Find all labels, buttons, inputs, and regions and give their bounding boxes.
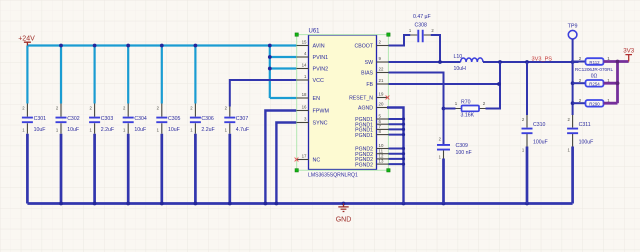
op-amp U61 body (308, 29, 377, 179)
svg-text:16: 16 (302, 105, 307, 110)
wire C311 to ground (571, 147, 574, 204)
capacitor C302 (56, 104, 80, 134)
svg-text:L10: L10 (454, 54, 463, 60)
wire VCC to C307 (230, 80, 297, 107)
svg-text:EN: EN (313, 96, 321, 102)
svg-text:BIAS: BIAS (361, 71, 373, 77)
svg-text:AGND: AGND (358, 106, 373, 112)
wire 3V3 purple net (604, 60, 629, 63)
svg-text:LMS3635SQRNLRQ1: LMS3635SQRNLRQ1 (308, 173, 358, 179)
U61 left pins (297, 46, 309, 160)
capacitor C301 (22, 104, 46, 134)
wire VIN drops to input caps (27, 46, 195, 104)
svg-text:RESET_N: RESET_N (349, 96, 373, 102)
capacitor C304 (123, 104, 147, 134)
svg-text:C306: C306 (201, 116, 214, 122)
wire FB (389, 83, 500, 85)
power port +24V (18, 35, 35, 45)
svg-text:U61: U61 (309, 29, 321, 35)
node junctions on 3V3_PS (438, 60, 574, 64)
svg-text:RC1206JR-070RL: RC1206JR-070RL (575, 67, 614, 72)
node junctions on +24V rail (59, 44, 272, 71)
wire L10 to 3V3_PS node (483, 61, 579, 63)
wire CBOOT to C308 (389, 35, 411, 46)
svg-text:10uF: 10uF (67, 127, 79, 133)
svg-text:C305: C305 (168, 116, 181, 122)
svg-text:C309: C309 (456, 143, 469, 149)
svg-text:PVIN2: PVIN2 (313, 67, 329, 73)
svg-text:TP9: TP9 (568, 24, 578, 30)
svg-text:FPWM: FPWM (313, 109, 330, 115)
svg-text:14: 14 (302, 63, 307, 68)
svg-text:0Ω: 0Ω (591, 73, 598, 79)
wire PGND2 pins to ground bus (389, 149, 404, 165)
selection box of U61 (295, 33, 390, 172)
svg-text:C311: C311 (579, 122, 591, 128)
svg-text:C302: C302 (67, 116, 80, 122)
wire C310 to 3V3_PS (526, 62, 528, 115)
capacitor C306 (190, 104, 215, 134)
wire C308 to SW node (431, 35, 440, 62)
svg-text:18: 18 (302, 92, 307, 97)
wire 3V3_PS to R70 (486, 62, 501, 109)
svg-text:GND: GND (336, 217, 352, 224)
resistor R290 (573, 98, 611, 107)
svg-text:100 nF: 100 nF (456, 150, 472, 156)
svg-text:2.2uF: 2.2uF (201, 127, 214, 133)
inductor L10 (454, 54, 484, 72)
svg-text:C307: C307 (236, 116, 249, 122)
svg-text:PGND2: PGND2 (355, 162, 373, 168)
node junctions on ground bus (59, 202, 529, 206)
svg-text:4.7uF: 4.7uF (236, 127, 249, 133)
svg-text:3V3_PS: 3V3_PS (532, 56, 553, 62)
capacitor C311 (567, 115, 593, 153)
resistor R112 (573, 56, 614, 79)
wire FPWM to ground (265, 111, 296, 204)
svg-text:C308: C308 (415, 23, 428, 29)
svg-text:C301: C301 (34, 116, 47, 122)
svg-text:100uF: 100uF (579, 140, 594, 146)
svg-text:R254: R254 (589, 82, 600, 87)
capacitor C308 (409, 14, 435, 42)
svg-text:10uH: 10uH (454, 66, 467, 72)
wire SW to L10 (389, 61, 461, 63)
capacitor C305 (156, 104, 180, 134)
svg-text:3.16K: 3.16K (461, 113, 475, 119)
svg-text:19: 19 (379, 92, 384, 97)
wire PGND1 pins to ground bus (389, 119, 404, 135)
no-ERC marker on RESET_N pin (386, 96, 390, 100)
test point TP9 (568, 24, 578, 39)
svg-text:VCC: VCC (313, 78, 324, 84)
svg-text:C310: C310 (533, 122, 546, 128)
capacitor C307 (224, 105, 249, 134)
wire VIN branch to PVIN1 PVIN2 EN (270, 46, 297, 99)
svg-text:17: 17 (302, 154, 307, 159)
svg-text:22: 22 (379, 67, 384, 72)
wire C309 to ground (442, 159, 445, 204)
resistor R254 (573, 78, 611, 87)
svg-text:R112: R112 (589, 60, 600, 65)
node junctions on PGND vertical (402, 117, 405, 165)
svg-text:C303: C303 (101, 116, 114, 122)
wire C310 to ground (526, 147, 529, 204)
svg-text:2.2uF: 2.2uF (101, 127, 114, 133)
svg-text:15: 15 (302, 40, 307, 45)
wire ground bus (27, 202, 572, 205)
svg-text:PVIN1: PVIN1 (313, 55, 329, 61)
svg-text:10uF: 10uF (134, 127, 146, 133)
no-ERC marker on NC pin (295, 158, 299, 162)
wire AGND to ground (387, 108, 404, 204)
svg-text:3V3: 3V3 (623, 48, 635, 55)
wire cap ground legs (27, 134, 229, 204)
svg-text:SYNC: SYNC (313, 121, 328, 127)
ground symbol GND (336, 204, 352, 224)
svg-text:NC: NC (313, 158, 321, 164)
wire 3V3_PS down to R254 R290 C311 (572, 62, 574, 115)
svg-text:20: 20 (379, 102, 384, 107)
svg-text:10uF: 10uF (34, 127, 46, 133)
svg-text:SW: SW (365, 60, 373, 66)
svg-text:CBOOT: CBOOT (355, 44, 374, 50)
power port 3V3 (623, 48, 635, 62)
capacitor C303 (89, 104, 114, 134)
svg-text:+24V: +24V (18, 35, 35, 42)
wire SYNC to ground (276, 123, 296, 204)
wire TP9 stem (572, 39, 574, 62)
wire BIAS to C309 (389, 73, 444, 145)
resistor R70 (444, 99, 486, 118)
svg-text:13: 13 (379, 159, 384, 164)
svg-text:10uF: 10uF (168, 127, 180, 133)
svg-text:0.47 µF: 0.47 µF (413, 14, 431, 20)
capacitor C310 (522, 115, 548, 153)
svg-text:C304: C304 (134, 116, 147, 122)
svg-text:PGND1: PGND1 (355, 133, 373, 139)
capacitor C309 (437, 137, 472, 160)
wire +24V rail (27, 44, 296, 46)
svg-text:100uF: 100uF (533, 140, 548, 146)
svg-text:R290: R290 (589, 102, 600, 107)
svg-text:21: 21 (379, 78, 384, 83)
U61 right pins (377, 46, 389, 165)
svg-text:AVIN: AVIN (313, 44, 325, 50)
svg-text:FB: FB (366, 82, 373, 88)
svg-text:R70: R70 (461, 99, 471, 105)
